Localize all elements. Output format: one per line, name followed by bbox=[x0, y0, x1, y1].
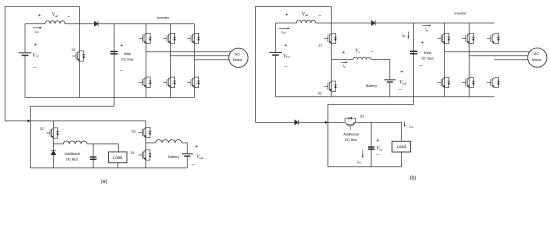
AC motor fig a bbox=[229, 48, 248, 67]
svg-text:+: + bbox=[400, 70, 403, 76]
svg-text:iad: iad bbox=[281, 29, 286, 35]
wire fuel cell branch fig a bbox=[24, 24, 26, 98]
svg-text:S3: S3 bbox=[360, 115, 364, 119]
diode D1 top fig a bbox=[94, 21, 98, 26]
label battery fig b bbox=[366, 70, 406, 93]
transistor S1 fig a bbox=[72, 51, 85, 61]
wire S1 S2 leg fig b bbox=[330, 23, 332, 97]
svg-text:−: − bbox=[67, 14, 70, 20]
wire additional bottom rail fig b bbox=[328, 166, 402, 168]
inductor Va fig b bbox=[353, 57, 371, 59]
svg-text:idc: idc bbox=[401, 32, 406, 38]
wire additional bottom rail fig a bbox=[30, 167, 187, 169]
wire midline to additional bus fig b bbox=[328, 105, 414, 167]
svg-text:+: + bbox=[38, 13, 41, 19]
svg-text:−: − bbox=[376, 153, 379, 159]
label + Va - fig b bbox=[342, 49, 374, 56]
wire additional bus top rail fig b bbox=[356, 122, 402, 141]
wire fuel cell branch fig b bbox=[275, 23, 277, 97]
svg-text:Vad: Vad bbox=[52, 13, 59, 18]
svg-text:iad: iad bbox=[34, 28, 39, 34]
label main dc bus fig a bbox=[120, 43, 134, 75]
AC motor fig b bbox=[528, 48, 547, 67]
svg-text:AC: AC bbox=[534, 51, 540, 56]
svg-text:Main: Main bbox=[424, 51, 432, 55]
svg-text:iin: iin bbox=[425, 27, 429, 33]
load box fig a bbox=[109, 152, 127, 163]
svg-text:S4: S4 bbox=[131, 151, 135, 155]
svg-text:Battery: Battery bbox=[168, 155, 179, 159]
svg-text:VFC: VFC bbox=[32, 54, 40, 59]
capacitor main dc bus fig a bbox=[110, 52, 117, 54]
svg-text:Main: Main bbox=[124, 52, 132, 56]
current arrow i_L fig b bbox=[404, 122, 414, 129]
wire load bottom leg fig b bbox=[401, 152, 403, 167]
load box fig b bbox=[392, 141, 411, 152]
svg-text:−: − bbox=[318, 14, 321, 20]
battery V_FC fig b bbox=[269, 53, 282, 56]
label battery fig a bbox=[168, 144, 203, 169]
wire midline from negative rail to additional bus fig a bbox=[30, 98, 114, 168]
svg-text:(b): (b) bbox=[410, 176, 417, 182]
svg-text:S3: S3 bbox=[132, 129, 136, 133]
capacitor main dc bus fig b bbox=[410, 51, 417, 53]
svg-text:+: + bbox=[376, 138, 379, 144]
transistor S2 fig b bbox=[324, 81, 337, 91]
transistor S1 fig b bbox=[324, 33, 337, 43]
svg-text:+: + bbox=[285, 12, 288, 18]
label + V_FC - fig b bbox=[283, 43, 291, 70]
svg-text:iac: iac bbox=[409, 123, 414, 129]
junction arrow additional bus fig b bbox=[325, 121, 328, 124]
svg-text:AC: AC bbox=[235, 51, 241, 56]
transistor inverter a bottom 2 bbox=[163, 77, 176, 87]
transistor S4 fig a bbox=[139, 150, 152, 160]
wire inverter leg 2 fig a bbox=[169, 24, 171, 98]
current arrow i_a fig b bbox=[341, 61, 348, 68]
wire inverter leg 1 fig a bbox=[145, 24, 147, 98]
transistor inverter b bottom 1 bbox=[437, 77, 450, 87]
wire S3 S4 leg fig a bbox=[145, 121, 147, 168]
svg-text:+: + bbox=[120, 43, 123, 49]
svg-text:+: + bbox=[34, 42, 37, 48]
svg-text:Inverter: Inverter bbox=[454, 12, 467, 16]
wire bottom rail fig b bbox=[276, 96, 495, 98]
wire outer loop top-left fig a bbox=[5, 7, 79, 121]
svg-text:iac: iac bbox=[357, 159, 362, 165]
svg-text:+: + bbox=[284, 43, 287, 49]
transistor S3 fig b horizontal bbox=[345, 117, 355, 130]
wire inverter leg 1 fig b bbox=[444, 23, 446, 97]
svg-text:DC Bus: DC Bus bbox=[121, 58, 133, 62]
svg-text:S2: S2 bbox=[318, 91, 322, 95]
svg-text:−: − bbox=[34, 65, 37, 71]
transistor S3 fig a bbox=[139, 127, 152, 137]
transistor inverter b bottom 2 bbox=[462, 77, 475, 87]
svg-text:Additional: Additional bbox=[65, 152, 81, 156]
wire S1 leg fig a bbox=[79, 24, 81, 98]
label V_ac fig b bbox=[376, 138, 383, 159]
transistor inverter a top 3 bbox=[187, 33, 200, 43]
current arrow i_ad fig b bbox=[279, 28, 290, 35]
svg-text:Motor: Motor bbox=[233, 57, 244, 62]
svg-text:Load: Load bbox=[397, 144, 407, 149]
wire top rail fig a bbox=[25, 23, 194, 25]
diode D1 top fig b bbox=[372, 20, 376, 25]
wire additional cap leg fig a bbox=[92, 144, 94, 168]
inductor battery fig a bbox=[156, 140, 182, 143]
wire S2 leg fig a bbox=[52, 121, 54, 168]
capacitor additional dc bus fig b bbox=[368, 147, 375, 149]
transistor inverter a bottom 3 bbox=[187, 77, 200, 87]
transistor inverter b bottom 3 bbox=[487, 77, 500, 87]
battery V_FC fig a bbox=[19, 53, 32, 56]
wire battery branch fig a bbox=[146, 143, 188, 168]
svg-text:S1: S1 bbox=[318, 43, 322, 47]
transistor inverter a bottom 1 bbox=[139, 77, 152, 87]
svg-text:Vbat: Vbat bbox=[399, 81, 406, 86]
transistor S2 fig a bbox=[46, 128, 59, 138]
transistor inverter b top 1 bbox=[437, 33, 450, 43]
transistor inverter b top 3 bbox=[487, 33, 500, 43]
label + Vad - fig b bbox=[285, 12, 321, 19]
wire main dc bus leg fig a bbox=[113, 24, 115, 98]
svg-text:−: − bbox=[192, 163, 195, 169]
svg-text:Vbat: Vbat bbox=[196, 155, 203, 160]
svg-text:Additional: Additional bbox=[343, 133, 359, 137]
diode freewheel S2 fig a bbox=[51, 150, 56, 154]
wire buck output fig a bbox=[53, 144, 118, 152]
capacitor additional dc bus fig a bbox=[90, 157, 97, 159]
wire inverter leg 2 fig b bbox=[468, 23, 470, 97]
svg-text:Battery: Battery bbox=[366, 84, 377, 88]
wire additional bus feed fig b bbox=[255, 121, 344, 123]
wire additional bus top rail fig a bbox=[5, 120, 146, 122]
wire load bottom leg fig a bbox=[117, 163, 119, 168]
svg-text:−: − bbox=[370, 49, 373, 55]
label + V_FC - fig a bbox=[32, 42, 40, 71]
svg-text:−: − bbox=[419, 63, 422, 69]
wire battery mid branch fig b bbox=[331, 60, 390, 97]
svg-text:(a): (a) bbox=[101, 179, 108, 185]
inductor Vad fig a bbox=[45, 21, 65, 24]
transistor inverter a top 1 bbox=[139, 33, 152, 43]
svg-text:S1: S1 bbox=[72, 48, 76, 52]
svg-text:+: + bbox=[342, 50, 345, 56]
label additional dc bus fig b bbox=[343, 133, 359, 143]
current arrow i_dc fig b bbox=[401, 32, 409, 39]
svg-text:DC Bus: DC Bus bbox=[345, 138, 357, 142]
wire outer loop top-left fig b bbox=[255, 7, 331, 123]
diode additional feed fig b bbox=[295, 120, 299, 125]
label main dc bus fig b bbox=[419, 40, 434, 69]
svg-text:Vad: Vad bbox=[302, 12, 309, 17]
inductor Vad fig b bbox=[297, 20, 316, 23]
svg-text:DC Bus: DC Bus bbox=[66, 158, 78, 162]
svg-text:Inverter: Inverter bbox=[157, 16, 170, 20]
inductor buck fig a bbox=[63, 141, 87, 144]
wire top rail fig b bbox=[276, 22, 495, 24]
wire bottom rail fig a bbox=[25, 97, 194, 99]
wire phase lines fig a bbox=[146, 52, 231, 60]
current arrow i_ac fig b bbox=[357, 150, 363, 165]
svg-text:−: − bbox=[284, 64, 287, 70]
svg-text:VFC: VFC bbox=[283, 54, 291, 59]
battery V_bat fig b bbox=[384, 80, 395, 82]
wire main dc bus leg fig b bbox=[413, 23, 415, 105]
svg-text:Va: Va bbox=[355, 49, 360, 54]
svg-text:Load: Load bbox=[113, 155, 123, 160]
transistor inverter b top 2 bbox=[462, 33, 475, 43]
current arrow i_ad fig a bbox=[33, 27, 42, 34]
svg-text:+: + bbox=[195, 144, 198, 150]
svg-text:−: − bbox=[399, 87, 402, 93]
svg-text:−: − bbox=[120, 69, 123, 75]
wire additional cap leg fig b bbox=[370, 122, 372, 166]
svg-text:Vac: Vac bbox=[377, 147, 384, 152]
svg-text:+: + bbox=[421, 40, 424, 46]
wire phase lines fig b bbox=[445, 52, 530, 60]
svg-text:Motor: Motor bbox=[532, 57, 543, 62]
wire inverter leg 3 fig a bbox=[193, 24, 195, 98]
battery V_bat fig a bbox=[182, 154, 193, 156]
current arrow i_in fig b bbox=[422, 25, 431, 33]
label + Vad - fig a bbox=[38, 13, 71, 20]
svg-text:S2: S2 bbox=[40, 127, 44, 131]
label additional dc bus fig a bbox=[65, 152, 81, 161]
transistor inverter a top 2 bbox=[163, 33, 176, 43]
svg-text:DC Bus: DC Bus bbox=[422, 57, 434, 61]
junction arrow additional bus fig a bbox=[28, 120, 31, 123]
